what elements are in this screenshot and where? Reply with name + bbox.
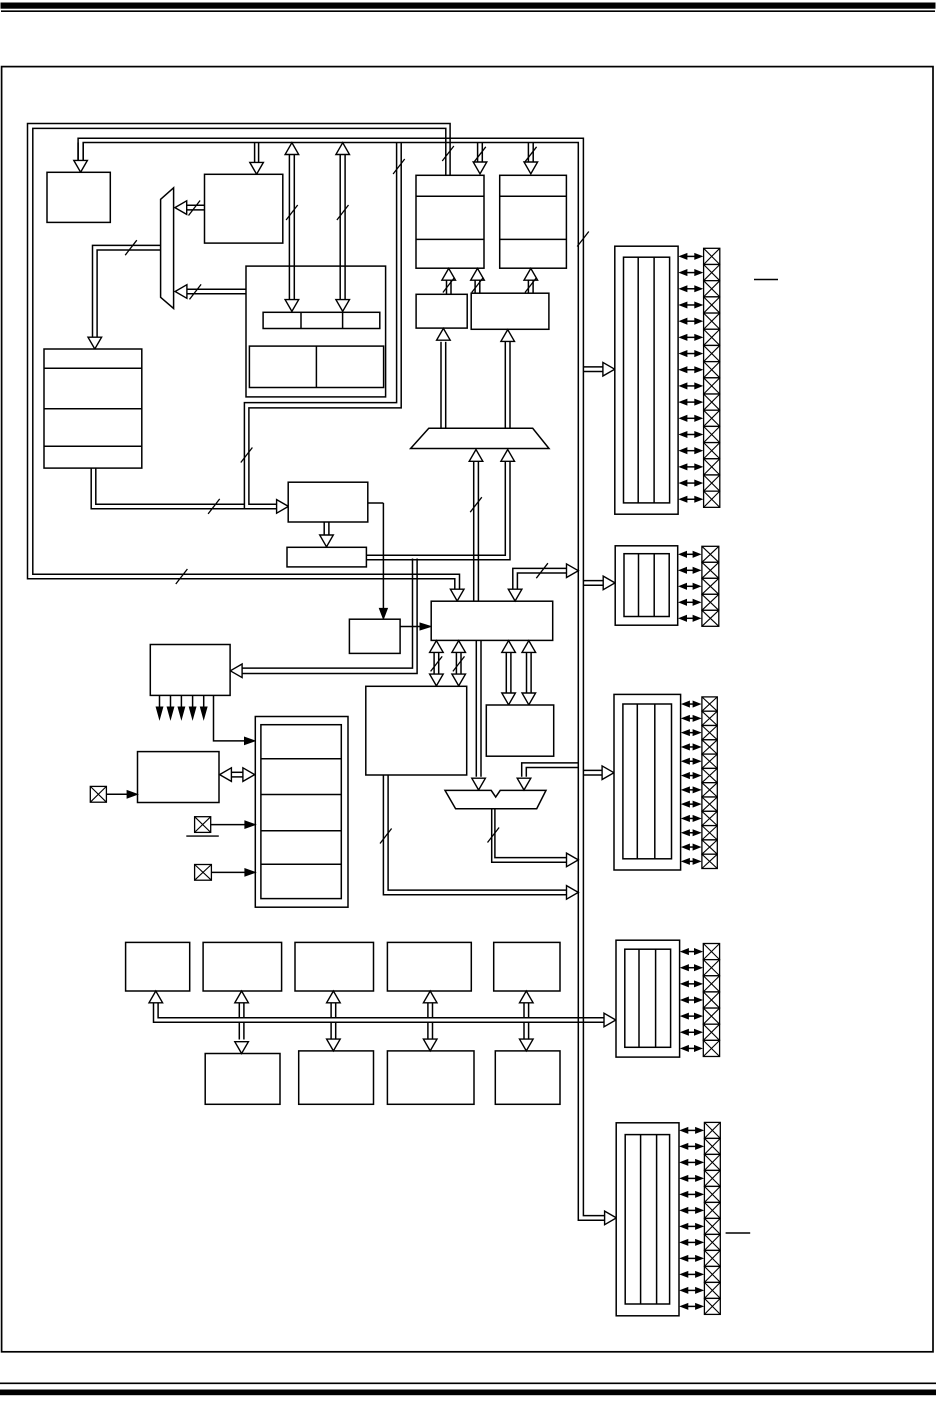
wire: MCLR pin to register stack (solid arrow) [211, 821, 256, 828]
pin symbol: VDD/VSS pin (X box) [195, 865, 212, 881]
wire: bidirectional bus arrow, RAM cells right [336, 143, 350, 312]
tick: port E analog mark [726, 1232, 751, 1234]
block: flash program memory (4 rows) [44, 349, 142, 468]
wire: ALU mux up-arrow to block D [501, 330, 515, 429]
block: port B latch columns (inner) [624, 554, 669, 617]
block: Timer1 [203, 942, 282, 991]
wire: right data bus west into mux M3 right arrow [517, 763, 578, 790]
bottom footer thin rule [0, 1382, 936, 1384]
block: configuration word register [47, 172, 110, 222]
wire: ALU mux up-arrow to block C [437, 328, 451, 428]
block: EEPROM data memory [150, 645, 230, 696]
block: ALU control register R [431, 601, 553, 640]
wire: block C up-arrow to stack A [442, 268, 456, 294]
block: data EEPROM [494, 942, 560, 991]
wire: data bus arrow into port C [583, 766, 614, 780]
wire: data bus (top run and right-side vertical run to bottom port) [78, 138, 616, 1224]
wire: R to ALU bidirectional arrow 1 [430, 641, 444, 686]
wire: OSC pin to block F (solid arrow) [106, 791, 137, 798]
wire: peripheral bus with branch arrows [149, 991, 616, 1027]
block: instruction decode and control [288, 482, 368, 522]
pin symbol: port E pin cells (X boxes) [704, 1122, 720, 1314]
wire: peripheral bus down-arrow at x=333.4 [327, 1022, 341, 1051]
wire: decode box to timing generator (single line, solid arrow) [368, 503, 388, 619]
wire: program bus loop (top run, left run, bottom run, down into R block) [28, 124, 465, 602]
block: register stack (outer) [255, 717, 348, 908]
wire: data bus arrow into stack block B [524, 143, 538, 174]
wire: peripheral bus down-arrow at x=241.6 [235, 1022, 249, 1053]
wire: EEPROM elbow to register stack (solid arrow) [214, 695, 255, 744]
block: port E latch (outer) [616, 1123, 679, 1316]
wire: peripheral bus down-arrow at x=526.3 [520, 1022, 534, 1051]
wire: peripheral bus down-arrow at x=430.2 [423, 1022, 437, 1051]
block: Timer0 [126, 942, 190, 991]
wire: peripheral bus up-arrow at x=526.3 [520, 991, 534, 1018]
block: USART [387, 1051, 474, 1104]
wire: data bus arrow into port B [583, 576, 615, 590]
block: W register [486, 705, 553, 756]
top header thick bar [1, 3, 935, 8]
block: program counter [205, 174, 283, 243]
wire: R to W register bidirectional arrow 1 [502, 641, 516, 705]
mux M1: program address mux [161, 188, 174, 309]
pin symbol: OSC1 crystal pin (X box) [90, 786, 106, 802]
block: stack block B (3 rows) [500, 175, 567, 268]
block: parallel slave port [495, 1051, 560, 1104]
wire: R block down to mux M3 left arrow [472, 640, 486, 790]
wire: instruction bus from data bus to instruction decode (down, left, down, right) [241, 143, 405, 514]
block: timer/oscillator block F [138, 752, 220, 803]
wire: RAM block to mux M1 [175, 284, 246, 299]
wire: peripheral bus up-arrow at x=430.2 [423, 991, 437, 1018]
wire: timing block to R block (solid arrow) [400, 623, 431, 630]
wire: peripheral bus up-arrow at x=333.4 [327, 991, 341, 1018]
wire: power pin to register stack (solid arrow) [211, 869, 255, 876]
wire: decode to timing block arrow [320, 522, 334, 547]
wire: data bus arrow into program memory block [74, 143, 88, 173]
block: 10-bit A/D converter [387, 942, 471, 991]
wire: mux M3 output to right data bus [488, 809, 579, 867]
block: FSR register C [416, 294, 467, 328]
block: RAM address cell row (3 cells) [263, 312, 380, 328]
block: stack block A (3 rows) [416, 175, 484, 268]
block: CCP modules [205, 1054, 280, 1105]
block: port A latch (outer) [615, 246, 678, 514]
wire: EEPROM 5 control down-arrows [156, 695, 207, 719]
pin symbol: port C pin cells (X boxes) [702, 697, 717, 869]
block: port B latch (outer) [615, 546, 678, 625]
wire: port A pin arrows [680, 254, 702, 502]
pin symbol: port B pin cells (X boxes) [702, 546, 719, 626]
wire: port B pin arrows [679, 552, 700, 622]
block: port A latch columns (inner) [624, 257, 670, 503]
block: Timer2 [295, 942, 374, 991]
mux M2: ALU input mux (wide trapezoid) [411, 428, 549, 448]
wire: program counter to mux M1 [175, 201, 205, 216]
wire: data bus arrow into port A [583, 362, 614, 376]
block: port C latch columns (inner) [623, 704, 672, 859]
wire: mux M1 to program memory block [88, 240, 161, 349]
mux M3: result mux (notched trapezoid) [445, 790, 546, 808]
block: port D latch columns (inner) [625, 949, 671, 1047]
wire: R to W register bidirectional arrow 2 [522, 641, 536, 705]
block: timing generation [349, 619, 400, 653]
wire: port E pin arrows [681, 1128, 703, 1310]
block: status register D [471, 293, 549, 329]
wire: elbow link R block top to right data bus [508, 563, 578, 601]
wire: port C pin arrows [682, 701, 700, 864]
wire: bidirectional bus arrow, RAM cells left [285, 143, 299, 312]
wire: data bus arrow into stack block A [473, 143, 487, 174]
block: register stack rows (inner, 5 rows) [261, 725, 341, 899]
wire: ALU output down and east to right data bus [380, 775, 578, 899]
block: port E latch columns (inner) [625, 1135, 669, 1304]
pin symbol: port D pin cells (X boxes) [703, 944, 719, 1057]
wire: port D pin arrows [681, 949, 702, 1051]
pin symbol: port A pin cells (X boxes) [704, 248, 720, 507]
bottom footer thick bar [0, 1390, 936, 1395]
block: RAM file registers (outer) [246, 266, 386, 397]
wire: data bus arrow into program counter block [250, 143, 264, 175]
block: port C latch (outer) [614, 694, 681, 870]
wire: block D up-arrow to stack A [471, 268, 485, 293]
block: port D latch (outer) [616, 940, 680, 1057]
wire: program memory output run to instruction decode [91, 468, 244, 514]
wire: block D up-arrow to stack B [524, 268, 538, 293]
tick: RA4 open-drain mark [754, 279, 778, 281]
wire: control register east run to ALU mux right arrow [366, 450, 514, 560]
wire: register file to ALU mux left up-arrow (runs down to R box top) [469, 450, 483, 601]
block: synchronous serial port [299, 1051, 374, 1104]
wire: block F bidirectional arrow to register stack [220, 768, 255, 782]
block: RAM bank select sub-box (2 cells) [249, 346, 383, 387]
top header thin rule [1, 10, 935, 12]
wire: R to ALU bidirectional arrow 2 [452, 641, 466, 686]
pin symbol: MCLR pin (X box with underline) [186, 817, 219, 836]
wire: branch down-left to EEPROM block (left arrow) [230, 559, 417, 678]
block: control lines register (thin) [287, 547, 366, 567]
block: ALU [366, 686, 467, 775]
wire: peripheral bus up-arrow at x=241.6 [235, 991, 249, 1018]
